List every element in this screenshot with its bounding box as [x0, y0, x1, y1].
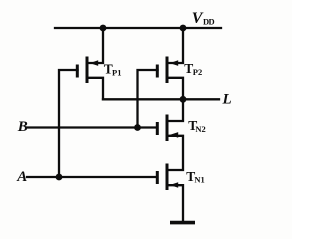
svg-text:B: B — [17, 119, 28, 135]
label VDD — [192, 10, 215, 27]
svg-text:N2: N2 — [195, 124, 205, 134]
wire node L to TN2 drain — [167, 99, 183, 121]
node dot rail-TP2 VDD — [180, 25, 187, 32]
wire VDD top rail — [55, 27, 221, 29]
node L dot — [180, 96, 187, 103]
label TN1 — [186, 169, 205, 185]
label TP2 — [184, 61, 202, 77]
wire TP2 drain to rail — [167, 28, 183, 63]
label TN2 — [188, 118, 206, 134]
wire input B line — [27, 126, 156, 128]
wire input A line — [27, 176, 156, 178]
wire TP1 source to node L — [87, 78, 103, 100]
svg-text:P2: P2 — [193, 67, 202, 77]
transistor TP1 — [77, 57, 98, 84]
wire TP1 drain to rail — [87, 28, 103, 63]
node dot rail-TP1 — [100, 25, 107, 32]
svg-text:V: V — [192, 10, 204, 27]
wire output line L — [103, 98, 219, 100]
ground — [170, 221, 195, 225]
svg-text:P1: P1 — [112, 68, 121, 78]
svg-text:DD: DD — [203, 16, 215, 26]
transistor TN1 — [157, 164, 178, 191]
node dot A-TP1 gate — [56, 174, 63, 181]
wire B to TP2 gate — [138, 70, 158, 128]
transistor TP2 — [157, 57, 178, 84]
transistor TN2 — [157, 115, 178, 142]
svg-text:A: A — [16, 169, 27, 185]
label TP1 — [104, 62, 122, 78]
wire TP2 source to node L — [167, 78, 183, 100]
wire A to TP1 gate — [59, 70, 78, 177]
wire TN2 source to TN1 drain — [167, 136, 183, 170]
svg-text:N1: N1 — [194, 174, 204, 184]
node dot B-TP2 gate — [134, 124, 141, 131]
wire TN1 source to ground — [167, 185, 183, 222]
svg-text:L: L — [222, 91, 232, 107]
